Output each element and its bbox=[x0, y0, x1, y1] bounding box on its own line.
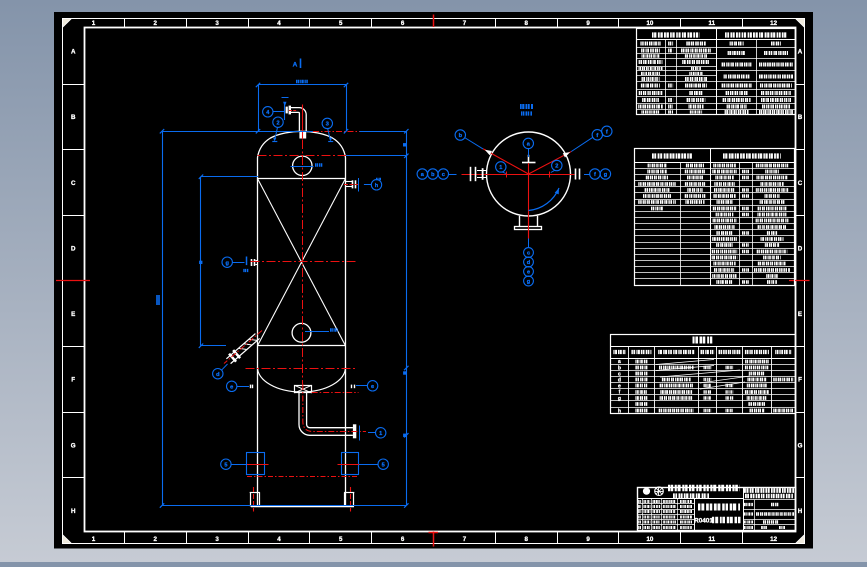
svg-text:d: d bbox=[216, 372, 220, 378]
svg-text:1: 1 bbox=[92, 536, 96, 543]
svg-text:H: H bbox=[71, 508, 76, 515]
svg-text:h: h bbox=[375, 183, 379, 189]
svg-text:A: A bbox=[293, 62, 298, 69]
svg-text:B: B bbox=[71, 114, 76, 121]
svg-text:F: F bbox=[798, 377, 802, 384]
svg-text:g: g bbox=[604, 172, 608, 178]
svg-text:9: 9 bbox=[586, 20, 590, 27]
svg-text:g: g bbox=[527, 279, 531, 285]
svg-text:d: d bbox=[618, 377, 621, 383]
svg-text:b: b bbox=[459, 133, 463, 139]
svg-text:2: 2 bbox=[154, 20, 158, 27]
svg-text:7: 7 bbox=[463, 536, 467, 543]
svg-text:c: c bbox=[527, 251, 530, 257]
svg-text:C: C bbox=[798, 180, 803, 187]
svg-text:8: 8 bbox=[525, 536, 529, 543]
svg-text:c: c bbox=[442, 172, 445, 178]
svg-text:6: 6 bbox=[401, 20, 405, 27]
svg-text:a: a bbox=[618, 359, 621, 365]
svg-text:f: f bbox=[606, 129, 608, 135]
svg-text:e: e bbox=[618, 384, 621, 390]
svg-text:h: h bbox=[618, 408, 621, 414]
svg-text:4: 4 bbox=[277, 20, 281, 27]
svg-text:5: 5 bbox=[382, 462, 385, 468]
svg-text:B: B bbox=[798, 114, 803, 121]
svg-text:A: A bbox=[798, 49, 803, 56]
svg-text:12: 12 bbox=[770, 536, 777, 543]
svg-text:e: e bbox=[527, 270, 530, 276]
svg-text:3: 3 bbox=[215, 536, 219, 543]
svg-text:5: 5 bbox=[339, 536, 343, 543]
svg-text:f: f bbox=[596, 133, 598, 139]
svg-text:f: f bbox=[594, 172, 596, 178]
svg-text:1: 1 bbox=[92, 20, 96, 27]
svg-text:H: H bbox=[798, 508, 803, 515]
svg-text:R0401: R0401 bbox=[694, 518, 713, 525]
svg-text:7: 7 bbox=[463, 20, 467, 27]
svg-text:11: 11 bbox=[708, 20, 715, 27]
svg-text:5: 5 bbox=[339, 20, 343, 27]
svg-text:3: 3 bbox=[326, 122, 329, 128]
svg-text:2: 2 bbox=[154, 536, 158, 543]
svg-text:F: F bbox=[71, 377, 75, 384]
svg-text:5: 5 bbox=[224, 462, 227, 468]
svg-text:d: d bbox=[527, 260, 531, 266]
svg-text:12: 12 bbox=[770, 20, 777, 27]
svg-text:c: c bbox=[618, 371, 621, 377]
svg-text:A: A bbox=[71, 49, 76, 56]
svg-text:11: 11 bbox=[708, 536, 715, 543]
svg-text:C: C bbox=[71, 180, 76, 187]
svg-text:1: 1 bbox=[379, 431, 382, 437]
svg-text:3: 3 bbox=[215, 20, 219, 27]
svg-text:e: e bbox=[230, 384, 233, 390]
svg-text:8: 8 bbox=[525, 20, 529, 27]
svg-text:10: 10 bbox=[646, 536, 653, 543]
svg-text:g: g bbox=[618, 396, 621, 402]
svg-text:9: 9 bbox=[586, 536, 590, 543]
svg-text:2: 2 bbox=[276, 120, 279, 126]
svg-text:E: E bbox=[798, 311, 802, 318]
svg-text:4: 4 bbox=[277, 536, 281, 543]
svg-text:G: G bbox=[71, 442, 76, 449]
svg-text:2: 2 bbox=[555, 164, 558, 170]
svg-text:G: G bbox=[798, 442, 803, 449]
svg-text:6: 6 bbox=[401, 536, 405, 543]
svg-text:e: e bbox=[371, 384, 374, 390]
svg-text:1: 1 bbox=[499, 165, 502, 171]
svg-text:E: E bbox=[71, 311, 75, 318]
svg-text:10: 10 bbox=[646, 20, 653, 27]
svg-text:g: g bbox=[225, 260, 229, 266]
svg-text:D: D bbox=[71, 245, 76, 252]
svg-text:D: D bbox=[798, 245, 803, 252]
svg-text:b: b bbox=[431, 172, 435, 178]
